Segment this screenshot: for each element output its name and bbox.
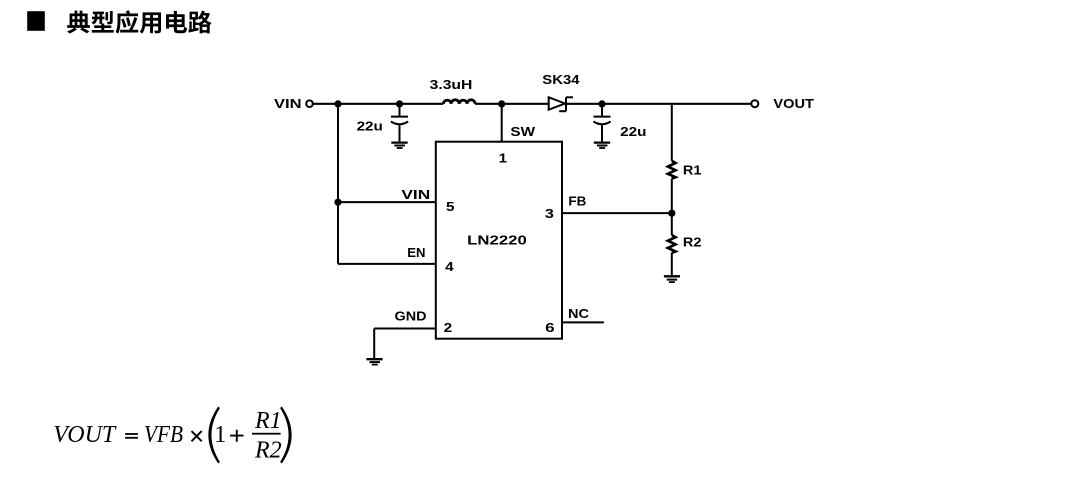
svg-text:VIN: VIN [274,97,302,111]
svg-text:4: 4 [445,260,454,274]
svg-text:R1: R1 [683,164,702,178]
svg-text:SW: SW [510,125,535,139]
svg-text:22u: 22u [357,119,383,133]
wire diode to VOUT [566,103,751,105]
wire EN pin 4 [338,263,436,265]
svg-text:EN: EN [407,246,425,260]
wire FB pin 3 [562,212,672,214]
terminal VOUT open circle [751,100,758,107]
svg-text:1: 1 [214,422,226,448]
svg-text:GND: GND [395,310,427,324]
wire R2 to ground [671,253,673,276]
ground GND [366,359,382,364]
formula equals sign [125,433,138,439]
svg-text:2: 2 [444,321,453,335]
junction FB node [668,210,675,217]
inductor L1 [443,100,475,104]
IC U1 LN2220 body [436,142,562,339]
ground C1 [391,143,407,148]
svg-text:VIN: VIN [401,188,430,202]
junction C2 node [598,100,605,107]
formula plus sign [230,430,243,442]
svg-text:VOUT: VOUT [773,97,814,111]
svg-text:VOUT: VOUT [53,422,117,448]
diode D1 schottky [549,97,573,111]
wire R1 to FB node [671,179,673,235]
svg-text:SK34: SK34 [542,73,579,87]
svg-text:R2: R2 [683,236,702,250]
svg-text:3.3uH: 3.3uH [430,78,473,92]
svg-text:VFB: VFB [144,422,183,448]
junction C1 node [396,100,403,107]
svg-text:R1: R1 [254,408,282,434]
svg-text:LN2220: LN2220 [467,234,527,248]
wire GND down [373,329,375,359]
junction VIN pin branch [334,199,341,206]
capacitor C1 [391,104,408,142]
terminal VIN open circle [306,100,313,107]
ground C2 [594,143,610,148]
wire SW to IC [501,104,503,142]
wire NC pin 6 [562,321,604,323]
formula left paren [208,407,220,464]
svg-text:3: 3 [545,207,554,221]
svg-text:FB: FB [568,195,586,209]
wire left vertical VIN branch [337,104,339,264]
svg-text:22u: 22u [620,125,646,139]
svg-text:NC: NC [568,307,589,321]
ground R2 [664,276,680,282]
formula times sign [192,431,202,441]
formula right paren [280,407,292,464]
wire GND pin 2 [374,328,436,330]
wire VOUT branch to R1 [671,104,673,161]
resistor R2 [668,235,676,253]
wire VIN terminal to inductor [314,103,444,105]
svg-text:1: 1 [499,152,508,166]
wire VIN pin 5 [338,201,436,203]
formula fraction bar [252,433,281,435]
junction input node [334,100,341,107]
formula VOUT = VFB x (1 + R1/R2) [53,408,281,464]
svg-text:6: 6 [545,321,555,335]
junction SW node [498,100,505,107]
svg-text:R2: R2 [254,438,282,464]
capacitor C2 [593,104,610,142]
resistor R1 [668,161,676,179]
svg-text:5: 5 [446,200,455,214]
wire inductor to diode [475,103,549,105]
title text 典型应用电路 [67,10,211,33]
title bullet square [27,11,45,31]
